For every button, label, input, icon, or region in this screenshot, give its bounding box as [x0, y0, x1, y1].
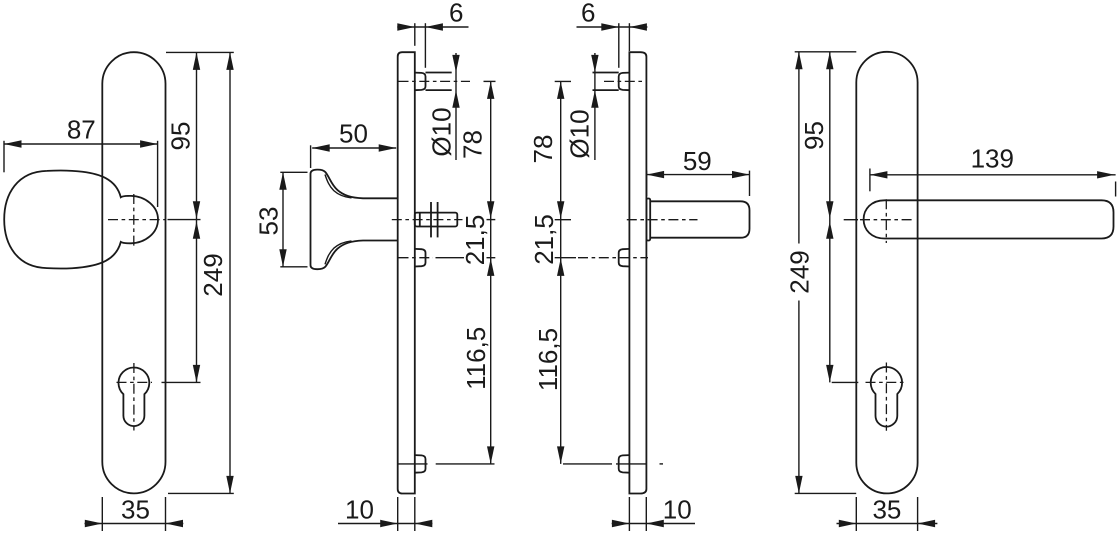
svg-text:116,5: 116,5: [533, 328, 563, 391]
view 2 top fixing screw: [415, 73, 426, 91]
view 2 backplate (side view): [398, 52, 415, 493]
svg-text:35: 35: [121, 495, 150, 525]
view 3 top screw centerline: [604, 80, 646, 82]
dimension 116,5 (middle to bottom screw, view 2): [487, 446, 494, 464]
dimension 6 (screw head projection, view 2): [414, 23, 416, 46]
dimension 249 (overall plate height, view 4): [798, 52, 800, 244]
view 4 bottom extension line: [795, 492, 857, 494]
svg-text:10: 10: [663, 495, 692, 525]
dimension Ø10 (screw hole diameter, view 3): [594, 53, 596, 160]
dimension 116,5 (middle to bottom screw, view 3): [557, 446, 564, 464]
view 3 bottom screw centerline: [563, 463, 612, 465]
view 4 lever hub centerlines (dashed cross): [860, 219, 913, 221]
svg-text:78: 78: [458, 130, 488, 159]
view 2 screw sleeve lines: [426, 72, 452, 74]
view 2 bottom fixing screw: [415, 455, 426, 473]
svg-text:53: 53: [254, 207, 284, 236]
svg-text:116,5: 116,5: [461, 327, 491, 390]
view 2 middle screw centerline: [399, 257, 434, 259]
view 4 lever center extension line: [844, 219, 858, 221]
svg-text:50: 50: [339, 119, 368, 149]
view 3 screw sleeve lines: [593, 72, 619, 74]
svg-text:87: 87: [67, 115, 96, 145]
dimension 35 (plate width, view 1): [101, 497, 103, 531]
view 2 knob face inner edge (top): [325, 175, 352, 198]
svg-text:Ø10: Ø10: [565, 109, 595, 158]
dimension 95 (top to handle center, view 1): [196, 52, 198, 382]
dimension segment lever center to cylinder center (view 4): [826, 221, 833, 239]
svg-text:21,5: 21,5: [529, 214, 559, 265]
dimension Ø10 (screw hole diameter, view 2): [455, 53, 457, 160]
view 3 left dimension line ticks: [555, 80, 571, 82]
view 2 spindle centerline: [392, 219, 463, 221]
svg-text:249: 249: [784, 250, 814, 293]
svg-text:139: 139: [971, 144, 1014, 174]
view 4 euro profile cylinder hole: [871, 367, 902, 427]
view 3 lever centerline: [627, 219, 698, 221]
svg-text:249: 249: [198, 253, 228, 296]
dimension 10 (plate thickness, view 3): [628, 497, 630, 531]
view 1 bottom extension line: [168, 492, 234, 494]
view 2 right dimension line ticks: [484, 80, 496, 82]
view 3 bottom fixing screw: [619, 455, 630, 473]
dimension 50 (knob projection, view 2): [310, 145, 312, 168]
view 2 knob (side profile): [311, 170, 398, 270]
dimension 6 (screw head projection, view 3): [618, 23, 620, 68]
view 4 lever handle (front view): [864, 200, 1114, 238]
svg-text:95: 95: [799, 121, 829, 150]
view 1 knob centerlines (dashed cross): [108, 219, 165, 221]
svg-text:6: 6: [581, 0, 595, 28]
svg-text:Ø10: Ø10: [427, 107, 457, 156]
view 3 backplate (side view): [629, 52, 646, 493]
view 1 euro profile cylinder hole: [119, 368, 150, 427]
view 4 backplate (front view, lever side): [856, 52, 917, 494]
dimension 59 (lever projection, view 3): [646, 171, 648, 196]
dimension 21,5 (lever to middle screw, view 3): [557, 258, 564, 276]
view 1 cylinder center extension line: [162, 381, 201, 383]
dimension 78 (top screw to lever, view 3): [560, 81, 562, 464]
dimension 249 (overall plate height, view 1): [229, 52, 231, 493]
dimension segment handle center to cylinder center (view 1): [193, 221, 200, 239]
view 3 lever handle (side view): [646, 199, 650, 241]
svg-text:21,5: 21,5: [460, 215, 490, 266]
svg-text:10: 10: [345, 495, 374, 525]
dimension 95 (top to lever center, view 4): [829, 52, 831, 383]
svg-text:95: 95: [166, 122, 196, 151]
dimension 10 (plate thickness, view 2): [397, 497, 399, 531]
view 2 spindle (square shaft with washer): [415, 213, 458, 227]
svg-text:59: 59: [683, 146, 712, 176]
view 4 top extension line: [795, 51, 857, 53]
dimension 21,5 (spindle to middle screw, view 2): [487, 258, 494, 276]
view 2 top screw centerline: [399, 80, 471, 82]
view 1 top extension line: [166, 51, 234, 53]
dimension 35 (plate width, view 4): [855, 497, 857, 531]
view 3 middle screw centerline: [555, 257, 576, 259]
svg-text:78: 78: [528, 135, 558, 164]
view 1 cylinder hole centerlines: [117, 381, 153, 383]
view 2 knob face inner edge (bottom): [325, 241, 352, 264]
svg-text:6: 6: [449, 0, 463, 28]
dimension 87 (knob length): [3, 141, 5, 173]
view 1 knob center extension line: [168, 219, 201, 221]
dimension 78 (top screw to spindle, view 2): [490, 81, 492, 464]
view 2 middle fixing screw: [415, 249, 426, 267]
dimension 139 (lever length, view 4): [869, 169, 871, 192]
dimension 53 (knob diameter, view 2): [280, 171, 307, 173]
view 3 top fixing screw: [619, 73, 630, 91]
view 3 middle fixing screw: [619, 249, 630, 267]
view 2 bottom screw centerline: [398, 463, 428, 465]
view 4 cylinder hole centerlines: [866, 381, 907, 383]
view 1 backplate (front view, knob side): [102, 52, 165, 493]
svg-text:35: 35: [872, 495, 901, 525]
view 4 cylinder center extension line: [832, 381, 859, 383]
view 1 knob (front outline): [4, 171, 158, 269]
